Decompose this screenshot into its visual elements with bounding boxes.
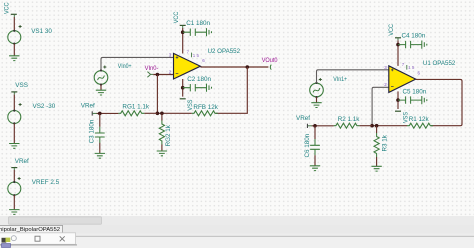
voltage source VS1 (8, 25, 53, 45)
svg-text:VSS: VSS (15, 82, 28, 89)
wire VIn0- to U2 pin2 (153, 74, 173, 76)
wire C3 to ground (99, 143, 101, 153)
svg-text:VRef: VRef (81, 102, 95, 109)
ground under generator VIn0+ (96, 90, 106, 95)
svg-text:VIn0-: VIn0- (145, 65, 159, 72)
voltage source VS2 (8, 103, 56, 125)
resistor RG1 1.1k (118, 103, 149, 115)
node VIn0- (jack + label) (145, 65, 159, 77)
node VRef (jack near RG1) (81, 102, 97, 115)
wire RFB to RG junction (157, 112, 191, 114)
node VCC above U1 (388, 24, 401, 41)
node VSS below U2 (jack) (180, 99, 194, 111)
resistor RG2 1k (vertical) (159, 113, 172, 151)
minimized window bar (0, 233, 77, 246)
svg-text:VS2 -30: VS2 -30 (33, 103, 56, 110)
taskbar top line (0, 236, 474, 237)
capacitor C5 180n (398, 88, 427, 103)
svg-text:R3 1k: R3 1k (382, 134, 389, 151)
ground under VS1 (9, 56, 19, 61)
op-amp U1 OPA552 (389, 60, 456, 92)
scrollbar thumb (9, 217, 102, 224)
capacitor C2 180n (183, 76, 212, 91)
wire R2/R3 junction up to U1 pin2 (gray) (372, 87, 389, 125)
ground at C1 (207, 28, 212, 36)
svg-text:R2 1.1k: R2 1.1k (338, 116, 361, 123)
junction at C4 tap (396, 43, 400, 47)
wire VRef to VREF source (13, 170, 15, 182)
wire VCC to U1 V+ pin (397, 40, 399, 66)
node VSS (jack) (11, 82, 28, 95)
node VSS below U1 (jack) (395, 111, 409, 123)
close button (60, 236, 65, 241)
resistor RFB 12k (192, 104, 219, 116)
wire VSS to VS2 (13, 95, 15, 111)
svg-text:RG1 1.1k: RG1 1.1k (122, 103, 149, 110)
svg-text:1 5: 1 5 (408, 65, 415, 70)
U1 V- pin wire down (397, 91, 399, 109)
resistor R1 12k (407, 116, 433, 128)
svg-text:1 5: 1 5 (193, 53, 200, 58)
wire generator to ground (100, 85, 102, 90)
resistor R2 1.1k (334, 116, 361, 128)
svg-text:U1 OPA552: U1 OPA552 (423, 60, 456, 67)
node VCC (jack at top of VS1) (4, 2, 17, 17)
svg-text:U2 OPA552: U2 OPA552 (208, 48, 241, 55)
svg-text:VRef: VRef (296, 115, 310, 122)
svg-text:C2 180n: C2 180n (187, 76, 211, 83)
area below tab bar (0, 234, 474, 248)
svg-text:C6 180n: C6 180n (304, 133, 311, 157)
wire RG1 left to VRef jack (96, 112, 118, 114)
resistor R3 1k (vertical) (374, 126, 389, 166)
voltage source VREF (8, 177, 60, 196)
svg-text:nipolar_BipolarOPA552: nipolar_BipolarOPA552 (0, 227, 60, 233)
ground under RG2 (157, 151, 167, 156)
wire VS1 to ground (13, 44, 15, 56)
generator VIn0+ (94, 63, 132, 86)
feedback wire output node down and left (216, 67, 248, 113)
junction at VRef node (98, 112, 102, 116)
svg-text:VSS: VSS (402, 112, 409, 123)
U2 V- pin wire down (182, 79, 184, 97)
capacitor C1 180n (183, 20, 211, 36)
wire VRef node down to C6 (314, 126, 316, 139)
junction at VRef node (313, 124, 317, 128)
ground at C2 (207, 84, 212, 92)
junction at C1 tap (181, 30, 185, 34)
wire VREF to ground (13, 195, 15, 209)
svg-text:VCC: VCC (4, 2, 11, 14)
svg-text:C1 180n: C1 180n (186, 20, 210, 27)
wire generator to U2 pin3 (gray) (101, 57, 173, 70)
ground at C4 (422, 41, 427, 49)
junction at C5 tap (396, 98, 400, 102)
wire C6 to ground (314, 155, 316, 165)
wire VIn0- node down to RG junction (156, 75, 158, 114)
svg-text:VS1 30: VS1 30 (31, 28, 52, 35)
wire U2 output to VOut0 (200, 66, 268, 68)
ground at C5 (422, 96, 427, 104)
svg-text:VCC: VCC (173, 11, 180, 23)
svg-text:C4 180n: C4 180n (402, 33, 426, 40)
svg-text:VRef: VRef (15, 158, 29, 165)
ground under C6 (310, 166, 320, 171)
ground under C3 (95, 153, 105, 158)
ground under VS2 (9, 144, 19, 149)
capacitor C6 180n (vertical) (304, 133, 320, 157)
svg-text:VIn1+: VIn1+ (333, 76, 347, 83)
junction at VIn0- node (156, 73, 160, 77)
node VRef (jack near R2) (296, 115, 312, 128)
node VCC above U2 (173, 11, 186, 28)
wire VS2 to ground (13, 123, 15, 143)
taskbar icons bottom-left (2, 236, 17, 248)
svg-text:VREF 2.5: VREF 2.5 (32, 179, 60, 186)
tab Unipolar_BipolarOPA552 (0, 225, 63, 233)
svg-text:C5 180n: C5 180n (403, 88, 427, 95)
svg-text:VSS: VSS (187, 100, 194, 111)
junction RG node right (160, 112, 164, 116)
wire VCC to U2 V+ pin (182, 28, 184, 54)
wire R1 to R2/R3 junction (372, 125, 407, 127)
wire R2 right to junction (360, 125, 373, 127)
junction R2/R3 node right (375, 124, 379, 128)
ground under R3 (371, 166, 381, 171)
svg-text:RG2 1k: RG2 1k (165, 124, 172, 146)
junction RG node left (156, 112, 160, 116)
ground under VREF (9, 210, 19, 215)
svg-text:VCC: VCC (388, 24, 395, 36)
svg-text:R1 12k: R1 12k (409, 116, 430, 123)
node VRef (jack) (11, 158, 29, 170)
wire U1 output feedback loop (416, 79, 462, 125)
op-amp U2 OPA552 (174, 48, 241, 79)
wire VRef node down to C3 (99, 113, 101, 126)
svg-text:C3 180n: C3 180n (89, 119, 96, 143)
node VOut0 (jack + label) (262, 57, 278, 69)
svg-text:VIn0+: VIn0+ (118, 63, 132, 70)
ground under generator VIn1+ (311, 103, 321, 108)
svg-text:VOut0: VOut0 (262, 57, 278, 64)
wire RG1 right to junction (144, 112, 157, 114)
junction at C2 tap (181, 86, 185, 90)
capacitor C4 180n (398, 33, 426, 49)
generator VIn1+ (310, 76, 348, 98)
junction at output node (246, 65, 250, 69)
wire generator to ground (316, 97, 318, 102)
wire VCC to VS1 (13, 17, 15, 31)
junction R2/R3 node left (370, 124, 374, 128)
svg-text:RFB 12k: RFB 12k (193, 104, 218, 111)
wire R2 left to VRef jack (312, 125, 334, 127)
capacitor C3 180n (vertical) (89, 119, 105, 143)
horizontal scrollbar track (0, 216, 474, 225)
wire generator to U1 pin3 (gray) (317, 70, 389, 83)
tab bar (0, 225, 474, 234)
restore button (35, 236, 40, 241)
